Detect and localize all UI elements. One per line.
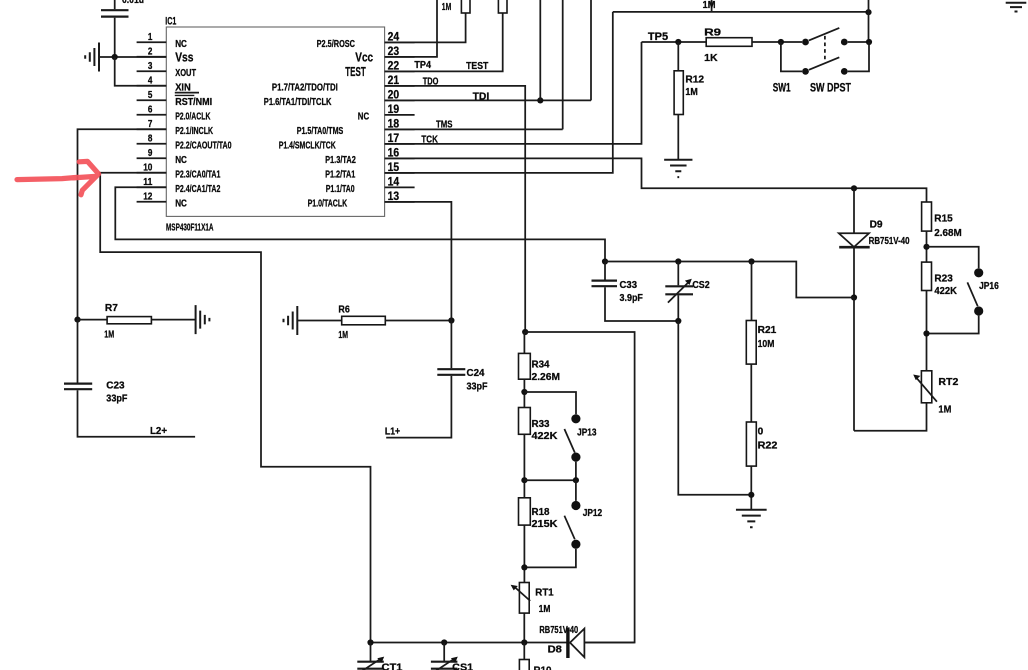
svg-text:15: 15	[388, 160, 400, 174]
jumper JP12 lever	[564, 516, 574, 540]
capacitor C25 top lead	[114, 0, 116, 9]
wire C24 top lead	[450, 321, 452, 369]
wire pin22 TEST to resistor	[385, 13, 503, 71]
resistor top cut 1	[461, 0, 470, 13]
thermistor RT2 arrowhead	[913, 375, 920, 381]
svg-text:3: 3	[148, 61, 153, 72]
node RT1-R10	[521, 639, 527, 645]
svg-text:13: 13	[388, 189, 400, 203]
svg-text:NC: NC	[175, 38, 187, 50]
jumper JP13 pin 2	[571, 453, 580, 462]
svg-text:TEST: TEST	[345, 65, 366, 79]
wire R12 top lead	[677, 42, 679, 71]
node switch right	[866, 39, 872, 45]
wire D9 cathode lead	[853, 247, 855, 297]
resistor R10 lead	[523, 643, 525, 660]
switch SW1 contact bottom-right	[841, 68, 848, 75]
node R6-C24-pin13	[448, 317, 454, 323]
pin 24 stub	[385, 41, 415, 43]
svg-text:12: 12	[143, 192, 153, 203]
svg-text:RT2: RT2	[938, 376, 958, 388]
svg-text:R15: R15	[934, 212, 953, 224]
wire pin23 Vcc riser	[385, 0, 437, 57]
svg-text:SW DPST: SW DPST	[810, 83, 851, 95]
trimmer CS1 arrow	[436, 658, 455, 670]
svg-text:Vcc: Vcc	[355, 50, 373, 64]
wire pin11 net	[115, 187, 605, 261]
svg-text:P2.1/INCLK: P2.1/INCLK	[175, 125, 213, 137]
wire RT2 bottom loop	[854, 403, 927, 431]
svg-text:R21: R21	[758, 324, 777, 336]
node R18-RT1	[521, 564, 527, 570]
svg-text:P2.2/CAOUT/TA0: P2.2/CAOUT/TA0	[175, 139, 232, 151]
wire C24 bottom to L1+	[386, 376, 451, 438]
svg-text:RT1: RT1	[535, 587, 554, 599]
svg-text:P2.3/CA0/TA1: P2.3/CA0/TA1	[175, 168, 220, 180]
pin 10 stub	[137, 172, 167, 174]
svg-text:P1.1/TA0: P1.1/TA0	[326, 183, 355, 195]
diode D8 cathode bar	[566, 627, 569, 658]
node switch left	[778, 39, 784, 45]
svg-text:10: 10	[143, 163, 153, 174]
svg-text:11: 11	[143, 177, 153, 188]
resistor R34	[519, 353, 531, 379]
wire R12 bottom lead	[677, 115, 679, 160]
svg-text:RB751V-40: RB751V-40	[539, 624, 578, 636]
node R15-R23	[923, 244, 929, 250]
ground R12	[664, 160, 692, 177]
RST overline	[175, 94, 195, 96]
svg-text:L1+: L1+	[385, 425, 400, 437]
svg-text:CT1: CT1	[382, 662, 403, 670]
trimmer CS2 top lead	[677, 262, 679, 286]
svg-text:RB751V-40: RB751V-40	[869, 235, 910, 247]
node JP12-JP13	[573, 477, 579, 483]
svg-text:D9: D9	[870, 219, 883, 231]
wire pin24 to resistor	[385, 13, 466, 42]
wire JP16 bottom	[927, 316, 979, 334]
pin 19 stub	[385, 114, 415, 116]
resistor R22	[746, 422, 756, 466]
trimmer CS1 arrowhead	[451, 657, 458, 663]
svg-text:NC: NC	[175, 154, 187, 166]
wire C23 bottom to L2+	[78, 390, 196, 436]
jumper JP12 pin 2	[571, 540, 580, 549]
node R33-R18	[521, 477, 527, 483]
thermistor RT1 arrow	[515, 587, 530, 601]
resistor R23	[922, 262, 932, 290]
switch SW1 contact top-left	[802, 39, 809, 46]
pin 23 stub	[385, 56, 415, 58]
svg-text:C23: C23	[106, 380, 124, 392]
switch SW1 contact top-right	[841, 39, 848, 46]
svg-text:1K: 1K	[704, 52, 718, 64]
wire C23 top lead	[77, 320, 79, 383]
trimmer CS2 bottom lead	[677, 295, 679, 321]
svg-text:19: 19	[388, 102, 400, 116]
wire bottom rail	[371, 642, 568, 644]
capacitor C33 top lead	[604, 262, 606, 280]
svg-text:TCK: TCK	[421, 133, 438, 145]
svg-text:0: 0	[758, 426, 764, 438]
svg-text:XOUT: XOUT	[175, 67, 196, 79]
svg-text:C24: C24	[467, 367, 485, 379]
jumper JP13 pin 1	[571, 414, 580, 423]
wire R6 left	[298, 320, 342, 322]
op-amp-ic U1 IC1 MSP430 body	[166, 27, 384, 216]
svg-text:22: 22	[388, 58, 400, 72]
svg-text:R9: R9	[704, 27, 721, 39]
node D9 cathode	[851, 294, 857, 300]
svg-text:P2.4/CA1/TA2: P2.4/CA1/TA2	[175, 183, 220, 195]
wire node to JP12	[524, 479, 576, 481]
svg-text:2: 2	[148, 47, 153, 58]
svg-text:TP4: TP4	[414, 59, 431, 71]
wire R7 right	[151, 319, 195, 321]
pin 16 stub	[385, 157, 415, 159]
svg-text:JP12: JP12	[583, 507, 603, 519]
thermistor RT2 body	[921, 371, 931, 403]
wire switch left leg	[781, 42, 802, 71]
resistor R6	[342, 316, 386, 325]
pin 2 stub	[137, 56, 167, 58]
pin 5 stub	[137, 99, 167, 101]
svg-text:21: 21	[388, 73, 400, 87]
switch SW1 lever top	[809, 28, 839, 41]
svg-text:1M: 1M	[442, 1, 452, 13]
wire TDI riser 1	[539, 0, 541, 100]
svg-text:2.26M: 2.26M	[532, 371, 561, 383]
wire switch right top	[848, 41, 869, 43]
wire to JP13	[524, 392, 576, 414]
svg-text:R34: R34	[532, 359, 550, 371]
svg-text:8: 8	[148, 134, 153, 145]
svg-text:6: 6	[148, 105, 153, 116]
jumper JP12 pin 1	[571, 501, 580, 510]
svg-text:5: 5	[148, 90, 153, 101]
jumper JP16 pin 2	[974, 306, 983, 315]
svg-text:JP16: JP16	[979, 280, 999, 292]
node TDO chain top	[522, 329, 528, 335]
wire TDI riser 2	[590, 0, 592, 100]
ground R6	[284, 306, 298, 335]
jumper JP13 lever	[564, 429, 574, 453]
wire chain loop	[525, 332, 634, 643]
pin 7 stub	[137, 128, 167, 130]
svg-text:R18: R18	[532, 506, 550, 518]
trimmer CT1 arrowhead	[377, 657, 384, 663]
svg-text:2.68M: 2.68M	[934, 227, 962, 239]
resistor top cut 2	[498, 0, 507, 13]
diode D9 cathode bar	[839, 246, 870, 249]
pin 22 stub	[385, 70, 415, 72]
svg-text:TEST: TEST	[466, 60, 489, 72]
resistor R10 body cut	[519, 660, 529, 670]
svg-text:JP13: JP13	[577, 426, 597, 438]
node CS1	[441, 639, 447, 645]
capacitor C23 plates	[64, 384, 92, 390]
svg-text:R23: R23	[934, 272, 953, 284]
svg-text:NC: NC	[358, 110, 370, 122]
pin 9 stub	[137, 157, 167, 159]
svg-text:422K: 422K	[532, 430, 558, 442]
svg-text:R22: R22	[758, 439, 778, 451]
svg-text:17: 17	[388, 131, 400, 145]
ground R7	[196, 305, 210, 334]
node R21 top	[748, 258, 754, 264]
pin 6 stub	[137, 114, 167, 116]
svg-text:1M: 1M	[104, 329, 114, 341]
svg-text:1M: 1M	[685, 86, 698, 98]
capacitor C25 bottom lead	[114, 18, 116, 57]
svg-text:XIN: XIN	[175, 81, 191, 93]
wire XIN	[115, 57, 167, 86]
pin 20 stub	[385, 99, 415, 101]
svg-text:R10: R10	[534, 665, 552, 670]
wire pin20 TDI	[385, 99, 591, 101]
trimmer CT1 plates	[357, 662, 384, 669]
node TDI junction	[537, 97, 543, 103]
svg-text:CS1: CS1	[452, 662, 473, 670]
wire R18-RT1	[523, 525, 525, 582]
node switch riser junction	[865, 9, 871, 15]
svg-text:C33: C33	[620, 279, 638, 291]
trimmer CT1 arrow	[362, 658, 381, 670]
wire 1M stub riser	[711, 0, 713, 12]
svg-text:RST/NMI: RST/NMI	[175, 96, 212, 108]
wire top net	[613, 11, 869, 13]
trimmer CS2 arrow	[668, 282, 689, 303]
wire R34-R33	[523, 379, 525, 407]
wire TP5 to R9	[642, 41, 707, 43]
svg-text:33pF: 33pF	[467, 381, 488, 393]
wire R9 to switch	[752, 41, 802, 43]
pin 17 stub	[385, 143, 415, 145]
wire pin16 net	[385, 158, 927, 202]
svg-text:P2.5/ROSC: P2.5/ROSC	[317, 38, 356, 50]
svg-text:MSP430F11X1A: MSP430F11X1A	[166, 221, 214, 233]
wire D9 node down	[853, 298, 855, 431]
trimmer CS2 plates	[665, 286, 693, 294]
svg-text:215K: 215K	[532, 518, 558, 530]
jumper JP16 pin 1	[974, 268, 983, 277]
svg-text:33pF: 33pF	[106, 392, 128, 404]
resistor R7	[107, 317, 151, 324]
wire R21 top lead	[751, 262, 753, 321]
trimmer CT1 lead	[370, 643, 372, 662]
ground Vss	[85, 43, 99, 72]
pin 18 stub	[385, 128, 415, 130]
svg-text:P1.0/TACLK: P1.0/TACLK	[308, 197, 348, 209]
node CT1	[367, 639, 373, 645]
wire R33-R18	[523, 434, 525, 498]
resistor R9	[706, 38, 752, 47]
wire CS2 bottom net	[678, 321, 751, 495]
wire pin21 TDO vertical	[385, 86, 526, 332]
jumper JP16 lever	[967, 282, 977, 306]
svg-text:1: 1	[148, 32, 153, 43]
node CS2 top	[675, 258, 681, 264]
svg-text:4: 4	[148, 76, 153, 87]
node Vss junction	[112, 54, 118, 60]
svg-text:24: 24	[388, 29, 400, 43]
wire R34 top lead	[523, 332, 525, 353]
wire switch right leg	[848, 42, 869, 71]
wire pin7 net	[78, 129, 167, 319]
svg-text:20: 20	[388, 87, 400, 101]
svg-text:18: 18	[388, 116, 400, 130]
svg-text:3.9pF: 3.9pF	[620, 292, 644, 304]
node R34-R33	[521, 389, 527, 395]
wire switch riser	[868, 0, 870, 42]
wire R21 to R22	[750, 364, 752, 422]
pin 8 stub	[137, 143, 167, 145]
capacitor C24 plates	[437, 369, 465, 375]
node R7-C23	[74, 317, 80, 323]
svg-text:1M: 1M	[703, 0, 716, 11]
node C33 top	[602, 258, 608, 264]
svg-text:16: 16	[388, 145, 400, 159]
wire bottom rail right	[584, 642, 634, 644]
svg-text:422K: 422K	[934, 285, 957, 297]
switch SW1 lever bottom	[809, 57, 839, 70]
resistor R12	[674, 71, 683, 115]
pin 4 stub	[137, 85, 167, 87]
svg-text:R6: R6	[338, 303, 350, 315]
wire pin17 TCK to TP5	[385, 42, 642, 144]
switch SW1 dashed link	[824, 36, 826, 61]
wire pin18 TMS riser	[385, 0, 563, 129]
thermistor RT2 arrow	[916, 377, 937, 402]
node R22 ground	[748, 492, 754, 498]
svg-text:Vss: Vss	[175, 51, 193, 65]
wire to JP16 top	[927, 247, 979, 268]
svg-text:NC: NC	[175, 197, 187, 209]
wire pin10 net	[100, 173, 370, 643]
pin 12 stub	[137, 201, 167, 203]
wire JP13 bottom	[575, 462, 577, 481]
svg-text:TDO: TDO	[423, 76, 439, 88]
svg-text:R33: R33	[532, 418, 550, 430]
svg-text:R7: R7	[105, 302, 118, 314]
svg-text:1M: 1M	[338, 329, 348, 341]
svg-text:TDI: TDI	[473, 90, 490, 102]
svg-text:TMS: TMS	[436, 119, 453, 131]
wire R15 bottom	[926, 231, 928, 262]
svg-text:P1.4/SMCLK/TCK: P1.4/SMCLK/TCK	[279, 139, 336, 151]
pin 11 stub	[137, 186, 167, 188]
svg-text:P2.0/ACLK: P2.0/ACLK	[175, 110, 211, 122]
wire JP12 top	[575, 480, 577, 501]
wire JP12 bottom	[524, 549, 576, 568]
svg-text:P1.6/TA1/TDI/TCLK: P1.6/TA1/TDI/TCLK	[264, 96, 332, 108]
pin 1 stub	[137, 41, 167, 43]
svg-text:R12: R12	[685, 74, 704, 86]
svg-text:P1.3/TA2: P1.3/TA2	[325, 154, 356, 166]
trimmer CS1 lead	[443, 643, 445, 662]
switch SW1 contact bottom-left	[802, 68, 809, 75]
svg-text:23: 23	[388, 44, 400, 58]
trimmer CS2 arrowhead	[685, 279, 692, 285]
svg-text:IC1: IC1	[165, 16, 176, 28]
node pin16-D9	[851, 185, 857, 191]
node TP5	[675, 39, 681, 45]
pin 3 stub	[137, 70, 167, 72]
annotation red arrow	[17, 161, 99, 194]
wire Vss to pin2	[100, 56, 167, 58]
capacitor C33 bottom lead	[605, 287, 678, 321]
svg-text:L2+: L2+	[150, 425, 167, 437]
wire D9 anode lead	[853, 188, 855, 233]
trimmer CS1 plates	[431, 662, 458, 669]
wire R22 bottom lead	[750, 466, 752, 510]
wire R7 left	[78, 319, 108, 321]
ground top-right	[1006, 3, 1027, 12]
svg-text:SW1: SW1	[773, 83, 791, 95]
resistor R18	[519, 498, 531, 525]
node R23-RT2	[923, 330, 929, 336]
ground R22	[736, 510, 767, 527]
svg-text:1M: 1M	[938, 404, 951, 416]
pin 15 stub	[385, 172, 415, 174]
wire RT1 bottom	[523, 613, 525, 642]
pin 14 stub	[385, 186, 415, 188]
wire pin15 riser	[385, 12, 613, 173]
capacitor C25 plates	[101, 10, 129, 16]
pin 13 stub	[385, 201, 415, 203]
svg-text:P1.5/TA0/TMS: P1.5/TA0/TMS	[297, 125, 344, 137]
resistor R33	[519, 408, 531, 435]
svg-text:P1.7/TA2/TDO/TDI: P1.7/TA2/TDO/TDI	[272, 81, 338, 93]
capacitor C33 plates	[592, 281, 618, 287]
node CS2 bottom	[675, 318, 681, 324]
thermistor RT1 body	[519, 583, 529, 614]
wire pin13 net	[385, 202, 452, 321]
diode D9 triangle	[839, 233, 869, 247]
wire R6 right	[385, 320, 451, 322]
pin 21 stub	[385, 85, 415, 87]
XIN underline	[175, 92, 199, 94]
resistor R21	[746, 321, 756, 365]
svg-text:CS2: CS2	[692, 279, 709, 291]
resistor R15	[922, 202, 932, 231]
svg-text:9: 9	[148, 148, 153, 159]
wire R23 bottom	[926, 291, 928, 371]
svg-text:7: 7	[148, 119, 153, 130]
svg-text:P1.2/TA1: P1.2/TA1	[325, 168, 355, 180]
svg-text:14: 14	[388, 174, 400, 188]
svg-text:1M: 1M	[539, 603, 551, 615]
thermistor RT1 arrowhead	[511, 585, 518, 591]
svg-text:0.01u: 0.01u	[122, 0, 144, 6]
svg-text:D8: D8	[548, 643, 562, 655]
wire tank top line	[605, 262, 854, 298]
svg-text:10M: 10M	[758, 338, 775, 350]
diode D8 triangle	[570, 629, 584, 658]
